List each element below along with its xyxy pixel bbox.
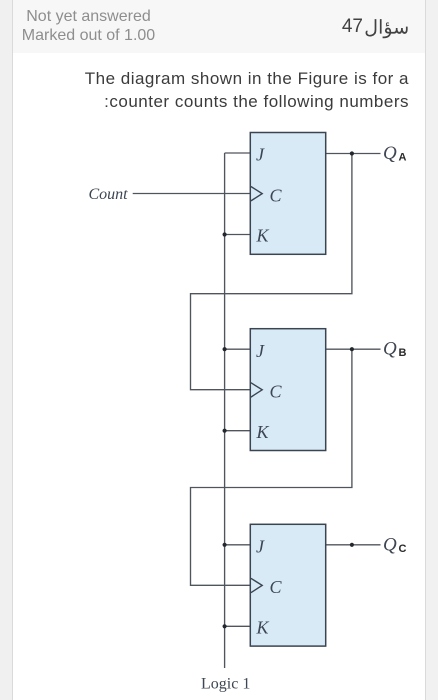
wire: U3 Q output to QC <box>326 544 381 546</box>
svg-text:K: K <box>256 422 270 442</box>
wire: bus to U2 pin J <box>225 348 250 350</box>
flip-flop U2 (JK) <box>250 329 325 451</box>
svg-text:J: J <box>256 341 265 361</box>
node label QC <box>383 534 407 555</box>
U2 body <box>250 329 325 451</box>
U1 clock chevron <box>251 187 262 201</box>
wire: QB feedback to U3 clock <box>191 349 352 585</box>
wire: QA feedback to U2 clock <box>191 154 352 390</box>
junction dot: bus at U3 K <box>223 624 227 628</box>
wire: U1 Q output to QA <box>326 153 381 155</box>
junction dot: bus at U2 K <box>223 429 227 433</box>
svg-text:J: J <box>256 145 265 165</box>
left page margin strip <box>0 0 13 700</box>
svg-text:A: A <box>399 152 407 164</box>
svg-text:C: C <box>270 577 283 597</box>
svg-text:J: J <box>256 537 265 557</box>
node label QB <box>383 339 407 360</box>
question info header band <box>13 0 425 53</box>
svg-text:C: C <box>270 185 283 205</box>
svg-text:K: K <box>256 617 270 637</box>
svg-text:B: B <box>399 347 407 359</box>
junction dot: QA node <box>350 151 354 155</box>
wire: bus to U2 pin K <box>225 430 250 432</box>
junction dot: QC node <box>350 543 354 547</box>
wire: bus to U3 pin J <box>225 544 250 546</box>
junction dot: bus at U1 K <box>223 232 227 236</box>
wire: bus to U3 pin K <box>225 625 250 627</box>
wire: bus to U1 pin K <box>225 234 250 236</box>
wire: Count input to U1 pin C <box>133 193 250 195</box>
node label QA <box>383 143 407 164</box>
U3 body <box>250 524 325 646</box>
svg-text:Q: Q <box>383 339 397 360</box>
junction dot: bus at U2 J <box>223 347 227 351</box>
flip-flop U1 (JK) <box>250 133 325 255</box>
question text <box>19 67 409 113</box>
wire: logic-1 bus vertical <box>224 153 226 668</box>
svg-text:Q: Q <box>383 143 397 164</box>
wire: bus to U1 pin J <box>225 152 250 154</box>
junction dot: bus at U3 J <box>223 543 227 547</box>
svg-text:C: C <box>399 543 407 555</box>
svg-text:K: K <box>256 226 270 246</box>
svg-text:Logic 1: Logic 1 <box>201 675 250 692</box>
U3 clock chevron <box>251 578 262 592</box>
flip-flop U3 (JK) <box>250 524 325 646</box>
svg-text:C: C <box>270 382 283 402</box>
wire: U2 Q output to QB <box>326 348 381 350</box>
question number (Arabic) <box>364 12 408 40</box>
svg-text:Count: Count <box>89 186 129 203</box>
svg-text:Q: Q <box>383 534 397 555</box>
junction dot: QB node <box>350 347 354 351</box>
U1 body <box>250 133 325 255</box>
U2 clock chevron <box>251 383 262 397</box>
right page margin strip <box>425 0 438 700</box>
